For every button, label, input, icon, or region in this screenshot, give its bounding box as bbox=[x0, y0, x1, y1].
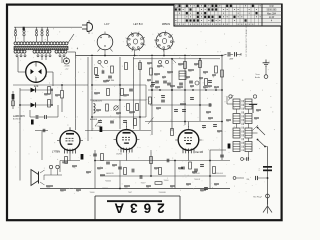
svg-text:?000 W: ?000 W bbox=[194, 179, 200, 181]
svg-text:?000 004: ?000 004 bbox=[215, 173, 223, 175]
aerial series caps bbox=[222, 54, 227, 55]
border frame bbox=[7, 5, 282, 221]
transformer right lead bbox=[68, 34, 74, 43]
socket V1 top view bbox=[97, 34, 113, 50]
svg-text:?0000: ?0000 bbox=[90, 192, 95, 194]
HT bus bbox=[76, 55, 223, 57]
band switch bbox=[98, 60, 101, 63]
left cluster verticals bbox=[51, 88, 53, 105]
valve risers bbox=[126, 122, 128, 127]
extra band smudges bbox=[147, 62, 152, 64]
bias resistor black bbox=[31, 120, 34, 125]
osc coil bbox=[94, 104, 96, 114]
speaker line right bbox=[267, 147, 269, 205]
cap blob bbox=[228, 144, 231, 149]
mains dropper bbox=[12, 94, 15, 100]
svg-text:Max 284: Max 284 bbox=[267, 13, 277, 15]
rectifier diodes bbox=[31, 88, 36, 93]
cluster wires left bbox=[20, 89, 52, 91]
mid caps bbox=[174, 109, 178, 111]
AF caps bbox=[131, 169, 133, 173]
svg-text:Ua=1B: Ua=1B bbox=[195, 150, 203, 154]
IF resistors upper bbox=[150, 68, 153, 75]
socket drops bbox=[104, 50, 106, 56]
rectifier wiring bbox=[17, 57, 19, 72]
coil pack bbox=[233, 99, 240, 109]
coil pack links bbox=[236, 109, 238, 114]
svg-text:?000?: ?000? bbox=[141, 183, 146, 185]
pilot lamp bbox=[64, 58, 70, 64]
svg-text:+V14B: +V14B bbox=[64, 66, 70, 68]
svg-text:+2,2: +2,2 bbox=[65, 68, 69, 70]
coil pack bottom row bbox=[248, 152, 250, 160]
pickup symbol bbox=[38, 172, 40, 184]
valve V5 bbox=[117, 130, 137, 150]
mains lead bbox=[14, 26, 82, 28]
svg-text:UCH4: UCH4 bbox=[116, 154, 122, 156]
IF wires upper bbox=[151, 57, 153, 135]
valve V6 bbox=[178, 130, 199, 151]
left vertical rail bbox=[19, 88, 21, 181]
IF switch bbox=[158, 60, 161, 63]
svg-text:O.T. SCH.DLR.GEV.CTD.BLAD GEW.: O.T. SCH.DLR.GEV.CTD.BLAD GEW. 5-47 bbox=[245, 18, 248, 57]
svg-text:26,: 26, bbox=[247, 179, 250, 181]
svg-text:A000070: A000070 bbox=[106, 172, 113, 175]
svg-text:LE7 B 3: LE7 B 3 bbox=[133, 22, 143, 26]
svg-text:At 4M 0B: At 4M 0B bbox=[13, 118, 22, 121]
AVC cluster right bbox=[202, 125, 206, 127]
model plate 263A bbox=[95, 195, 180, 197]
transformer terminals below bbox=[16, 55, 18, 57]
svg-text:Aarde: Aarde bbox=[255, 76, 260, 79]
earth spike bbox=[267, 198, 269, 206]
socket V3 top view bbox=[156, 33, 173, 50]
band junction dots bbox=[151, 89, 153, 91]
left rail bottom bbox=[20, 180, 31, 182]
coupling caps bbox=[95, 75, 99, 77]
trimmers bbox=[229, 95, 232, 98]
svg-text:1B5CN: 1B5CN bbox=[162, 22, 170, 26]
aerial input tee bbox=[252, 105, 254, 114]
svg-text:14 W: 14 W bbox=[269, 17, 275, 19]
svg-text:At4M0B: At4M0B bbox=[90, 118, 98, 121]
extra AF components bbox=[93, 153, 97, 155]
trimmer osc bbox=[114, 106, 118, 110]
mains plug bbox=[86, 23, 88, 32]
svg-text:263A: 263A bbox=[108, 200, 164, 215]
svg-text:12F: 12F bbox=[34, 84, 39, 88]
svg-text:?00000B: ?00000B bbox=[158, 192, 166, 194]
svg-text:Hot Plug?: Hot Plug? bbox=[253, 195, 263, 198]
AF verticals bbox=[94, 150, 96, 189]
output transformer link bbox=[210, 149, 226, 151]
earth symbol bbox=[265, 60, 267, 63]
filter caps bbox=[35, 115, 37, 119]
mains filter cap bbox=[263, 166, 272, 168]
mains plug terminal bbox=[266, 194, 270, 198]
coil pack core bbox=[241, 100, 243, 151]
scan speckle bbox=[12, 28, 277, 194]
pickup jacks bbox=[49, 165, 52, 168]
RF cluster frame wires bbox=[133, 57, 135, 129]
svg-text:P0874: P0874 bbox=[102, 188, 107, 190]
grid resistors bbox=[95, 68, 98, 75]
band switch arms bbox=[258, 128, 266, 136]
svg-text:?00000: ?00000 bbox=[105, 181, 111, 183]
filter resistors bbox=[48, 87, 51, 95]
earth terminal bbox=[265, 66, 267, 74]
row3 caps bbox=[98, 120, 102, 122]
electrolytics bbox=[100, 127, 103, 133]
terminal ticks bbox=[15, 27, 17, 30]
valve V4 bbox=[60, 131, 80, 151]
socket V2 top view bbox=[127, 33, 144, 50]
rectifier valve V7 bbox=[26, 62, 47, 83]
row2 resistors bbox=[107, 89, 110, 96]
svg-text:L?7BN: L?7BN bbox=[52, 150, 60, 154]
shielded coil bbox=[179, 71, 186, 80]
AF resistors bbox=[101, 154, 104, 161]
svg-text:LCY: LCY bbox=[104, 22, 109, 26]
svg-text:5000-285: 5000-285 bbox=[267, 10, 277, 12]
svg-text:LA4B 0070: LA4B 0070 bbox=[13, 115, 26, 118]
AF bus low bbox=[40, 188, 230, 190]
caps under bus bbox=[155, 80, 159, 82]
aerial terminal strip bbox=[14, 30, 16, 32]
gram link row bbox=[233, 177, 236, 180]
primary drops bbox=[15, 41, 17, 42]
svg-text:?0000: ?0000 bbox=[164, 180, 169, 182]
valve drops bbox=[69, 150, 71, 161]
AF mid wires bbox=[100, 175, 226, 177]
power transformer bbox=[14, 42, 17, 45]
valve data table bbox=[174, 4, 282, 26]
svg-text:?00?: ?00? bbox=[128, 192, 132, 194]
